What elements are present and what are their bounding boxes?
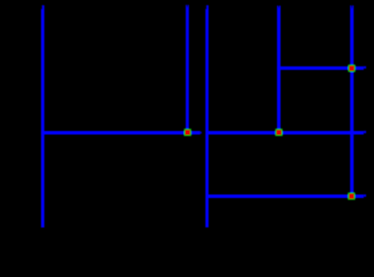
wire end notch at top of V1 [41, 5, 42, 9]
wire vertical V4 [277, 6, 281, 133]
wire end notch at top of V3 [205, 5, 206, 9]
junction J1 [185, 129, 191, 135]
wire vertical V5 [350, 5, 354, 196]
wire end nub of HA left segment [200, 132, 201, 134]
wire end tail of HC [364, 194, 366, 196]
wire horizontal HB [277, 66, 364, 70]
wire vertical V2 [186, 5, 189, 133]
wire horizontal HA left segment [41, 131, 200, 135]
wire end notch at top of V4 [278, 6, 280, 9]
wire vertical V1 [41, 5, 44, 227]
wire end notch at top of V2 [187, 5, 189, 8]
junction J4 [348, 193, 354, 199]
wire vertical V3 [205, 5, 208, 227]
junction J3 [349, 65, 355, 71]
wire horizontal HA right segment [206, 131, 364, 135]
wire end tail of HA right segment [364, 131, 366, 133]
wire end notch at top of V5 [351, 5, 353, 8]
junction J2 [276, 129, 282, 135]
wire end tail of HB [364, 66, 366, 68]
wire horizontal HC [206, 195, 364, 199]
